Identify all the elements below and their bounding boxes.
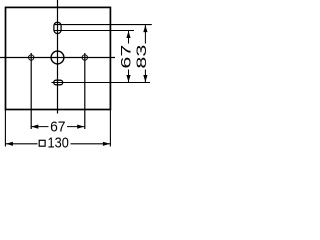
bottom slot (horizontal obround) <box>54 80 63 85</box>
horizontal center line <box>0 57 115 59</box>
left mounting hole <box>29 55 34 60</box>
extension line from slot top (83 dim) <box>54 24 152 26</box>
arrow left 130 bottom <box>6 142 13 146</box>
arrow down 67 vertical <box>126 75 130 82</box>
left hole center/extension line <box>30 53 32 129</box>
right mounting hole <box>82 55 87 60</box>
center circle <box>51 51 64 64</box>
square symbol of 130 <box>39 140 45 146</box>
vertical center line <box>57 0 59 114</box>
svg-text:83: 83 <box>133 44 149 68</box>
extension line from slot bottom (67 dim) <box>54 30 134 32</box>
arrow up 83 vertical <box>143 25 147 32</box>
dimension line 67 bottom <box>31 126 85 128</box>
arrow right 130 bottom <box>103 142 110 146</box>
dimension line 83 vertical <box>144 25 146 83</box>
svg-text:130: 130 <box>48 135 69 152</box>
arrow down 83 vertical <box>143 75 147 82</box>
right hole center/extension line <box>84 53 86 129</box>
arrow right 67 bottom <box>77 125 84 129</box>
arrow left 67 bottom <box>31 125 38 129</box>
plate outline (square 130) <box>6 7 111 109</box>
svg-text:67: 67 <box>50 119 65 136</box>
arrow up 67 vertical <box>126 31 130 38</box>
svg-text:67: 67 <box>117 44 133 68</box>
extension line through bottom slot <box>51 82 150 84</box>
left plate edge extension line <box>4 110 6 147</box>
top screw slot (vertical obround) <box>54 22 61 33</box>
right plate edge extension line <box>109 110 111 147</box>
dimension line 130 bottom <box>5 143 110 145</box>
dimension line 67 vertical <box>128 31 130 83</box>
